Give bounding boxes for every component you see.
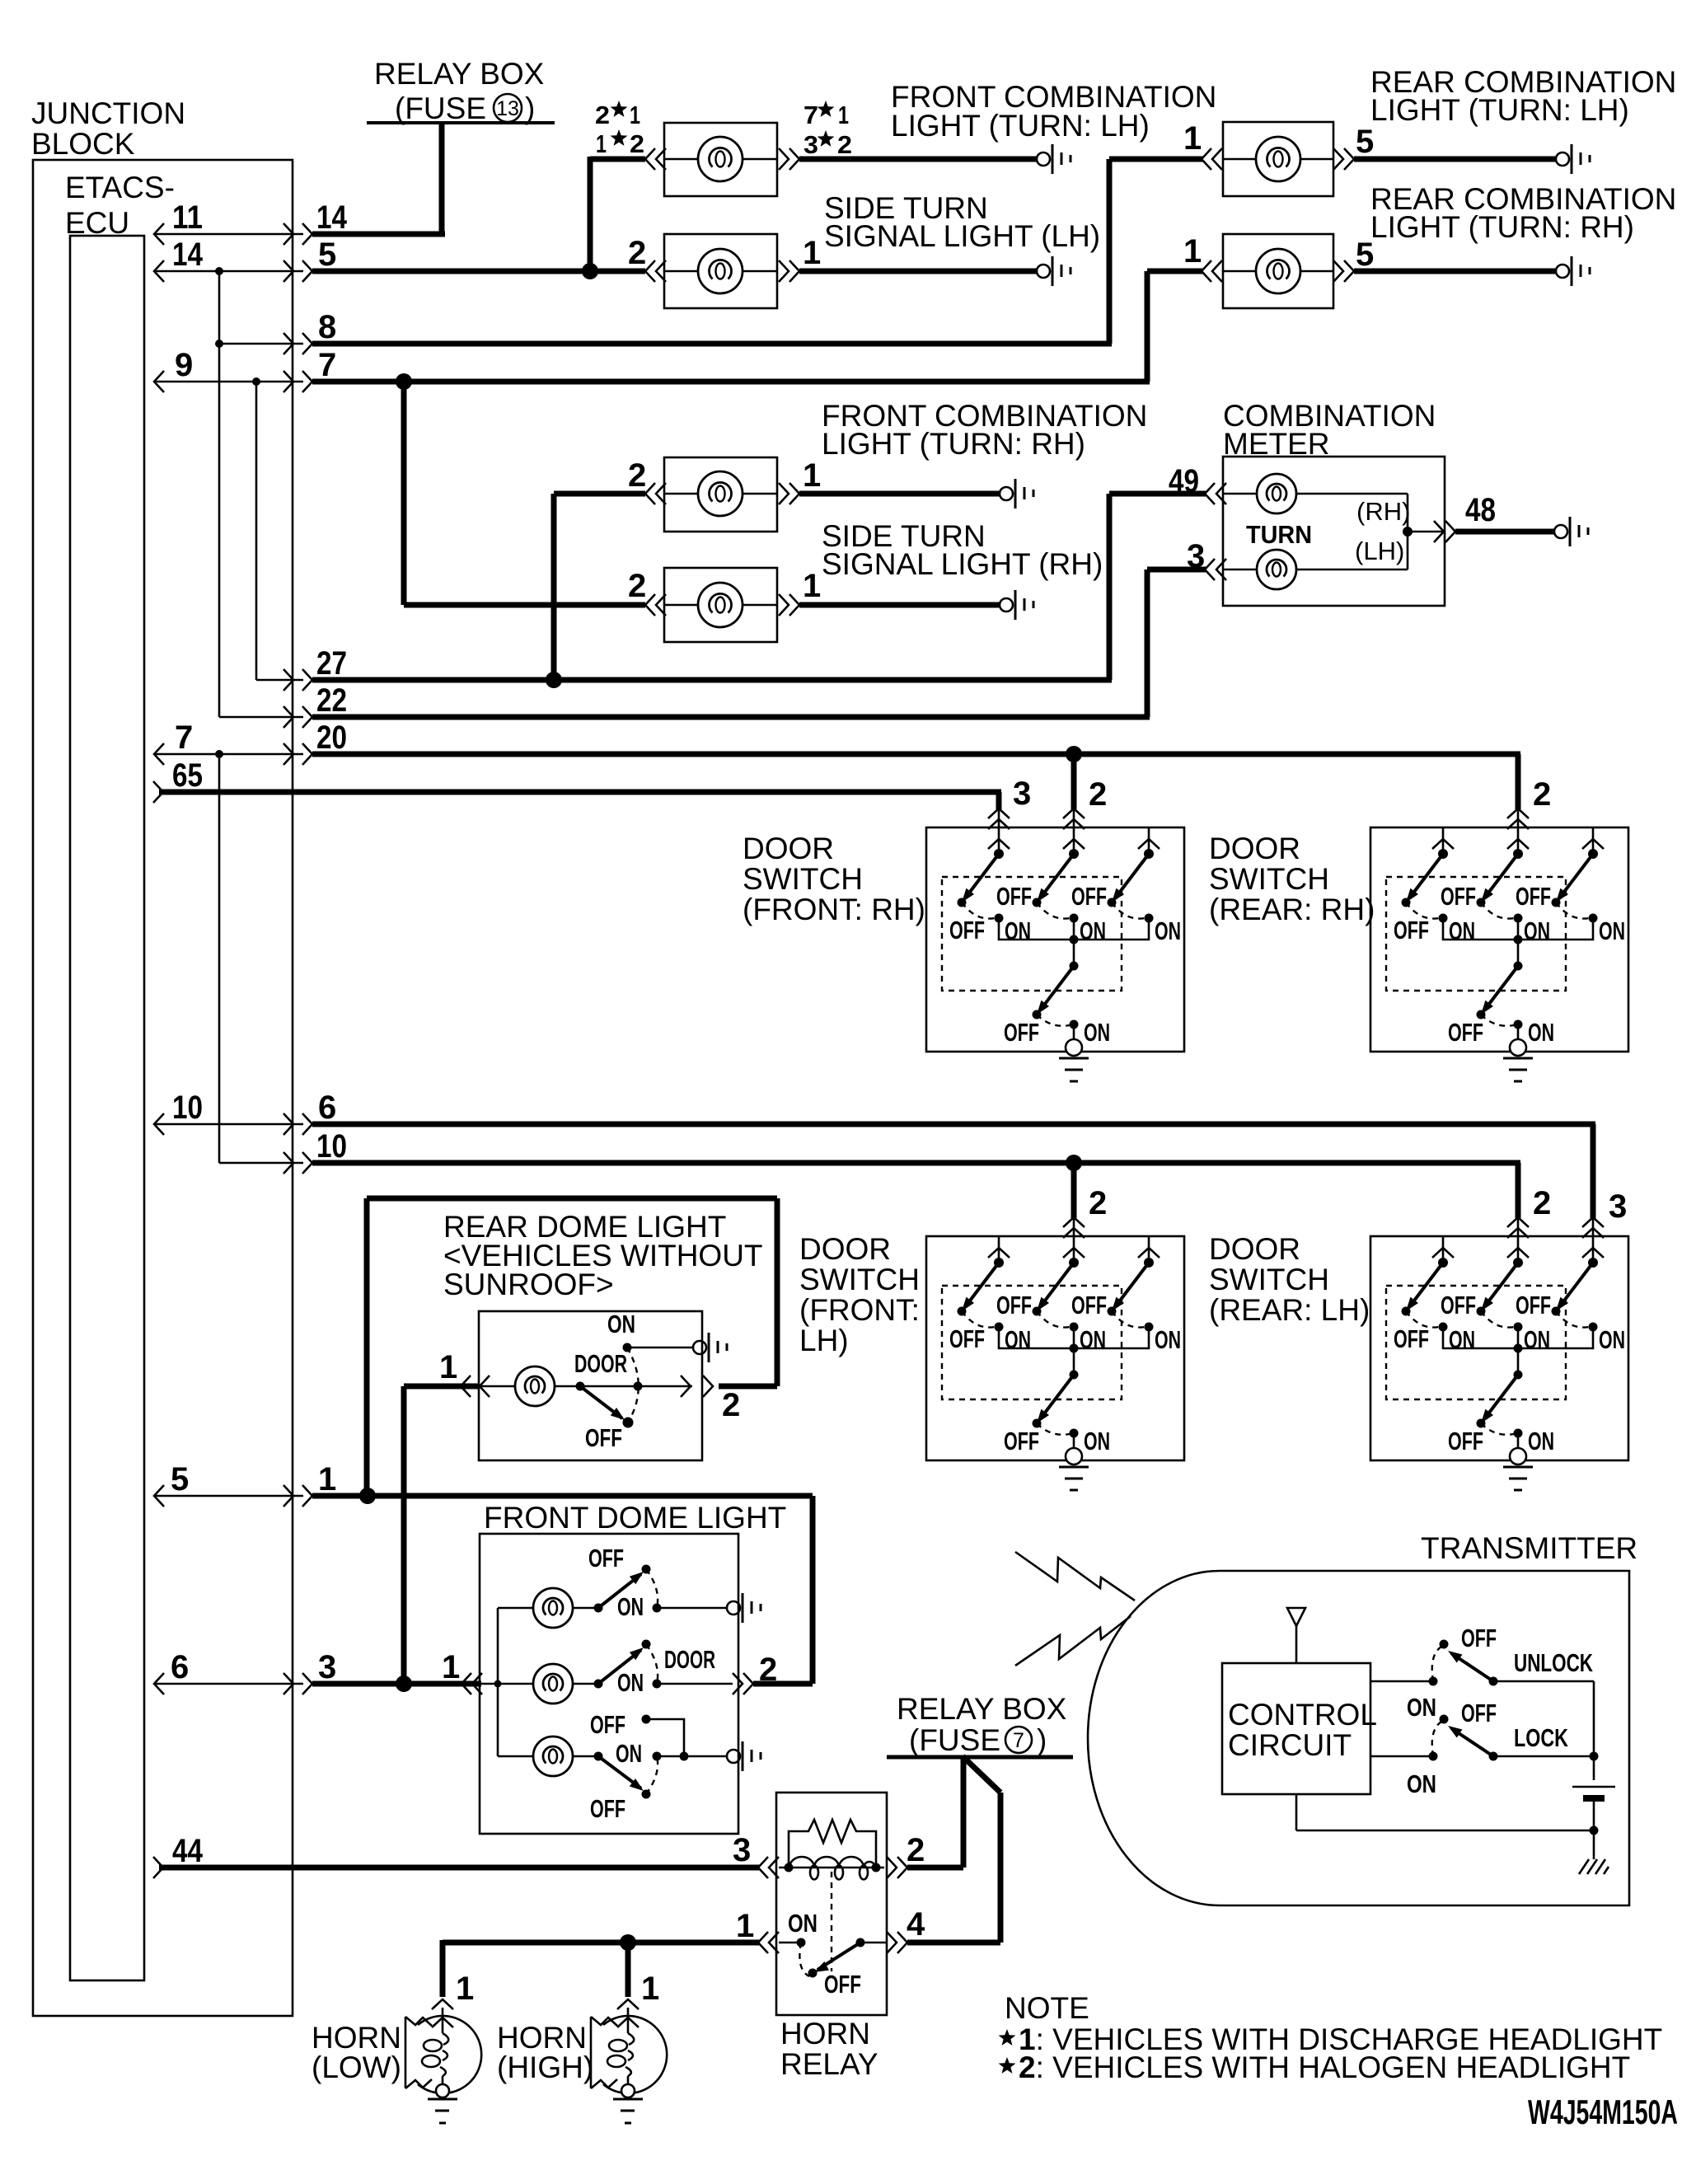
svg-text:2: 2 (595, 101, 610, 129)
wire meter pin48 to ground (1455, 529, 1554, 535)
svg-text:7: 7 (803, 101, 818, 129)
svg-text:1: 1 (803, 235, 821, 271)
wire row10 drop to door switch front LH pin2 (1071, 1163, 1077, 1218)
wire row ECU pin65 (153, 757, 1001, 803)
ground meter pin48 (1554, 517, 1588, 546)
svg-text:LH): LH) (799, 1324, 849, 1357)
ground side turn LH (1037, 256, 1071, 286)
ground rear combo RH (1556, 256, 1590, 286)
wire row ECU pin10 / junction pin6 (154, 1090, 1595, 1135)
svg-text:1: 1 (456, 1971, 474, 2007)
svg-text:SIGNAL LIGHT (LH): SIGNAL LIGHT (LH) (824, 219, 1100, 253)
wire rear combo RH to ground (1354, 269, 1556, 274)
svg-text:DOOR: DOOR (743, 832, 834, 865)
svg-text:HORN: HORN (312, 2021, 401, 2055)
svg-text:1: 1 (630, 101, 640, 129)
svg-text:(FUSE: (FUSE (395, 91, 486, 125)
horn relay (733, 1793, 925, 2081)
svg-text:DOOR: DOOR (1209, 832, 1300, 865)
svg-text:SWITCH: SWITCH (799, 1263, 920, 1296)
wire row6 drop to door switch rear LH pin3 (1591, 1124, 1596, 1218)
front dome light (442, 1501, 786, 1834)
svg-text:TRANSMITTER: TRANSMITTER (1421, 1531, 1637, 1565)
rear dome light (439, 1210, 763, 1460)
node on row7 feeding side turn RH (396, 373, 412, 390)
svg-text:HORN: HORN (497, 2021, 587, 2055)
svg-text:2: 2 (628, 568, 646, 604)
side turn signal light (LH) (628, 191, 1100, 308)
svg-text:DOOR: DOOR (664, 1645, 715, 1674)
wire row ECU pin44 (153, 1833, 760, 1878)
svg-text:OFF: OFF (1461, 1699, 1497, 1727)
svg-text:(REAR: LH): (REAR: LH) (1209, 1293, 1370, 1327)
junction internal riser A (pins 5/8 to 22) (215, 267, 223, 717)
relay resistor (789, 1820, 876, 1868)
wire front combo RH to ground (799, 491, 1000, 497)
svg-text:TURN: TURN (1246, 520, 1312, 549)
ground rear combo LH (1556, 144, 1590, 174)
svg-text:LOCK: LOCK (1514, 1723, 1568, 1752)
wire row junction pin8 (219, 309, 1112, 354)
svg-text:BLOCK: BLOCK (31, 127, 135, 161)
svg-text:HORN: HORN (780, 2017, 870, 2050)
rear combination light (turn: LH) (1183, 65, 1676, 196)
radio wave lower (1015, 1616, 1131, 1666)
front combination light (turn: RH) (628, 399, 1147, 532)
note (999, 1991, 1663, 2084)
node on row10 (1066, 1155, 1082, 1171)
svg-text:5: 5 (171, 1461, 189, 1497)
rear combination light (turn: RH) (1183, 182, 1676, 308)
svg-text:22: 22 (316, 682, 347, 719)
svg-text:2: VEHICLES WITH HALOGEN HEADL: 2: VEHICLES WITH HALOGEN HEADLIGHT (1019, 2050, 1630, 2084)
door switch (rear: RH) (1370, 827, 1628, 1081)
svg-text:2: 2 (1089, 776, 1107, 813)
svg-text:DOOR: DOOR (574, 1349, 627, 1378)
svg-text:7: 7 (175, 719, 193, 756)
wire front combo LH to ground (799, 157, 1037, 162)
svg-text:CONTROL: CONTROL (1228, 1698, 1377, 1732)
control circuit (1222, 1663, 1377, 1794)
wire row7 riser to rear combo RH (1145, 271, 1150, 382)
wire row65 drop to door switch front RH pin3 (996, 792, 1002, 809)
svg-text:6: 6 (318, 1090, 336, 1126)
wire relay pin2 to fuse7 (907, 1757, 963, 1868)
svg-text:1: 1 (596, 129, 607, 158)
svg-text:1: 1 (1183, 233, 1202, 269)
door switch (front: LH) (926, 1236, 1184, 1490)
wire row junction pin27 (256, 645, 1112, 691)
svg-text:(FUSE: (FUSE (909, 1723, 1000, 1757)
horn (high) (497, 1971, 667, 2123)
radio wave upper (1015, 1552, 1135, 1601)
svg-text:8: 8 (318, 309, 336, 345)
relay actuation dashed link (831, 1872, 832, 1971)
rear dome light feed loop (367, 1198, 777, 1496)
svg-text:10: 10 (316, 1128, 347, 1165)
wire pin5 riser to front combo LH (582, 157, 645, 279)
svg-text:ON: ON (617, 1592, 644, 1621)
ground front dome lower (727, 1741, 761, 1771)
svg-text:SWITCH: SWITCH (743, 862, 863, 896)
svg-text:14: 14 (316, 199, 348, 236)
wire row27 riser to meter pin49 (1109, 494, 1206, 680)
svg-text:3: 3 (733, 1832, 751, 1868)
svg-text:OFF: OFF (1461, 1624, 1497, 1652)
svg-text:3: 3 (1013, 776, 1031, 812)
svg-text:FRONT DOME LIGHT: FRONT DOME LIGHT (484, 1501, 786, 1535)
svg-text:ECU: ECU (65, 206, 129, 240)
horn (low) (312, 1971, 481, 2123)
svg-text:10: 10 (172, 1090, 203, 1126)
ground side turn RH (1000, 590, 1033, 620)
svg-text:44: 44 (172, 1833, 204, 1869)
svg-text:OFF: OFF (588, 1544, 624, 1572)
svg-text:5: 5 (1356, 237, 1374, 273)
svg-text:2: 2 (630, 129, 644, 158)
svg-text:LIGHT (TURN: LH): LIGHT (TURN: LH) (1370, 93, 1629, 127)
svg-text:7: 7 (318, 347, 336, 383)
pin arrows (461, 1673, 471, 1694)
svg-text:JUNCTION: JUNCTION (31, 96, 185, 130)
svg-text:2: 2 (1533, 776, 1551, 813)
antenna (1287, 1608, 1305, 1663)
wire side turn RH to ground (799, 602, 1000, 608)
svg-text:2: 2 (628, 457, 646, 494)
svg-text:RELAY BOX: RELAY BOX (374, 57, 544, 91)
wire rear dome pin1 drop to row3 (404, 1386, 479, 1684)
svg-text:48: 48 (1465, 492, 1496, 528)
wire row ECU pin14 / junction pin5 (154, 237, 645, 282)
svg-text:1: 1 (736, 1908, 754, 1944)
wire row ECU pin7 / junction pin20 (154, 719, 1520, 765)
wire row ECU pin6 / junction pin3 (154, 1649, 481, 1694)
wire row junction pin22 (219, 682, 1150, 728)
svg-text:OFF: OFF (590, 1710, 625, 1739)
svg-text:1: 1 (803, 457, 821, 494)
wire row20 drop to door switch front RH pin2 (1071, 754, 1077, 809)
door switch (rear: LH) (1370, 1236, 1628, 1490)
wire row7 branch to side turn RH (404, 382, 645, 605)
dome switch 3 (594, 1752, 603, 1761)
svg-text:1: 1 (641, 1971, 659, 2007)
transmitter bottom return (1296, 1794, 1599, 1859)
wire side turn LH to ground (799, 269, 1037, 274)
svg-text:DOOR: DOOR (1209, 1232, 1300, 1266)
svg-text:NOTE: NOTE (1005, 1991, 1089, 2025)
wire fuse13 to junction pin 14 (439, 123, 445, 234)
svg-text:1: 1 (1183, 120, 1202, 157)
svg-text:RELAY: RELAY (780, 2047, 878, 2081)
svg-text:2: 2 (907, 1832, 925, 1868)
wire row8 riser to rear combo LH (1107, 159, 1113, 344)
ground front dome upper (727, 1593, 761, 1623)
pin arrows door switch front RH (988, 808, 1010, 818)
wire row20 drop to door switch rear RH pin2 (1516, 754, 1521, 809)
svg-text:ON: ON (616, 1739, 642, 1768)
door switch (front: RH) (926, 827, 1184, 1081)
node on row3 (396, 1675, 412, 1692)
junction internal riser C (pin 20 to 10) (218, 754, 221, 1163)
svg-text:SWITCH: SWITCH (1209, 1263, 1329, 1296)
wire relay pin4 to fuse7 (907, 1756, 1000, 1943)
svg-text:ON: ON (1407, 1693, 1436, 1722)
svg-text:OFF: OFF (590, 1794, 625, 1823)
relay box (fuse 7) (887, 1692, 1073, 1757)
wire row27 riser to front combo RH (546, 494, 645, 688)
svg-text:(HIGH): (HIGH) (497, 2050, 593, 2084)
svg-text:LIGHT (TURN: RH): LIGHT (TURN: RH) (822, 427, 1085, 461)
svg-text:): ) (1037, 1723, 1047, 1757)
svg-text:5: 5 (1356, 124, 1374, 160)
dome switch 2 (594, 1680, 603, 1689)
svg-text:1: 1 (318, 1461, 336, 1497)
svg-text:W4J54M150A: W4J54M150A (1528, 2093, 1678, 2131)
svg-text:LIGHT (TURN: RH): LIGHT (TURN: RH) (1370, 210, 1634, 244)
svg-text:ETACS-: ETACS- (65, 171, 175, 204)
svg-text:(LOW): (LOW) (312, 2050, 401, 2084)
side turn signal light (RH) (628, 519, 1103, 642)
wire rear combo LH to ground (1354, 157, 1556, 162)
svg-text:): ) (525, 91, 535, 125)
svg-text:9: 9 (175, 347, 193, 383)
transmitter right bus (1590, 1681, 1599, 1780)
relay coil (779, 1867, 884, 1869)
svg-text:14: 14 (172, 237, 204, 273)
svg-text:CIRCUIT: CIRCUIT (1228, 1728, 1352, 1762)
junction block J/B (31, 96, 293, 2016)
transmitter (1088, 1531, 1637, 1905)
ground front combo LH (1037, 144, 1071, 174)
svg-text:65: 65 (172, 757, 203, 794)
svg-text:4: 4 (907, 1906, 925, 1943)
dome switch 1 (594, 1604, 603, 1613)
svg-text:ON: ON (788, 1909, 818, 1938)
svg-text:1: 1 (803, 568, 821, 604)
ETACS-ECU U1 (65, 171, 175, 1980)
wire row ECU pin9 / junction pin7 (154, 347, 1150, 392)
svg-text:ON: ON (617, 1668, 644, 1697)
svg-text:SWITCH: SWITCH (1209, 862, 1329, 896)
svg-text:(LH): (LH) (1355, 537, 1404, 565)
svg-text:27: 27 (316, 645, 347, 682)
svg-text:20: 20 (316, 719, 347, 756)
svg-text:SIGNAL LIGHT (RH): SIGNAL LIGHT (RH) (822, 547, 1103, 581)
relay box (fuse 13) (367, 57, 555, 125)
wire relay pin1 to horns (443, 1934, 760, 1997)
svg-text:3: 3 (318, 1649, 336, 1685)
svg-text:1: 1 (838, 101, 849, 129)
svg-text:1: 1 (442, 1649, 460, 1685)
relay switch (779, 1942, 801, 1944)
svg-text:SUNROOF>: SUNROOF> (443, 1268, 614, 1301)
svg-text:11: 11 (172, 199, 203, 236)
svg-text:DOOR: DOOR (799, 1232, 891, 1266)
svg-text:ON: ON (607, 1310, 635, 1338)
svg-text:ON: ON (1407, 1769, 1436, 1798)
svg-text:2: 2 (1089, 1185, 1107, 1221)
svg-text:13: 13 (496, 97, 519, 120)
svg-text:(FRONT:: (FRONT: (799, 1293, 920, 1327)
svg-text:2: 2 (722, 1387, 740, 1423)
svg-text:2: 2 (628, 235, 646, 271)
svg-text:OFF: OFF (824, 1970, 861, 1999)
svg-text:(REAR: RH): (REAR: RH) (1209, 893, 1375, 926)
svg-text:3: 3 (1609, 1188, 1627, 1225)
node on row1 (359, 1488, 376, 1504)
svg-text:6: 6 (171, 1649, 189, 1685)
wire row22 riser to meter pin3 (1147, 569, 1206, 717)
combination meter (1169, 399, 1496, 606)
svg-text:3: 3 (803, 130, 818, 159)
transmitter unlock switch (1370, 1624, 1594, 1722)
svg-text:1: 1 (439, 1349, 457, 1385)
node on row20 (1066, 746, 1082, 762)
transmitter lock switch (1370, 1699, 1594, 1798)
svg-text:2: 2 (1533, 1185, 1551, 1221)
svg-text:LIGHT (TURN: LH): LIGHT (TURN: LH) (891, 109, 1150, 143)
wire row junction pin10 (219, 1128, 1520, 1174)
junction internal riser B (pin 7 to 27) (252, 377, 260, 680)
svg-text:UNLOCK: UNLOCK (1514, 1648, 1593, 1677)
svg-text:7: 7 (1013, 1729, 1024, 1752)
svg-text:(FRONT: RH): (FRONT: RH) (743, 893, 925, 926)
svg-text:5: 5 (318, 237, 336, 273)
svg-text:OFF: OFF (585, 1423, 622, 1452)
chassis ground transmitter (1579, 1859, 1609, 1874)
wire row ECU pin11 / junction pin14 (154, 199, 445, 245)
wire row10 drop to door switch rear LH pin2 (1516, 1163, 1521, 1218)
svg-text:2: 2 (837, 130, 852, 159)
front combination light (turn: LH) (595, 80, 1216, 196)
svg-text:RELAY BOX: RELAY BOX (897, 1692, 1066, 1726)
ground front combo RH (1000, 479, 1033, 509)
wire row ECU pin5 / junction pin1 (154, 1461, 813, 1507)
wire front dome pin2 loop to row1 (753, 1496, 813, 1684)
svg-text:(RH): (RH) (1356, 497, 1410, 526)
ground rear dome light (693, 1333, 727, 1362)
battery B1 (1572, 1787, 1615, 1830)
